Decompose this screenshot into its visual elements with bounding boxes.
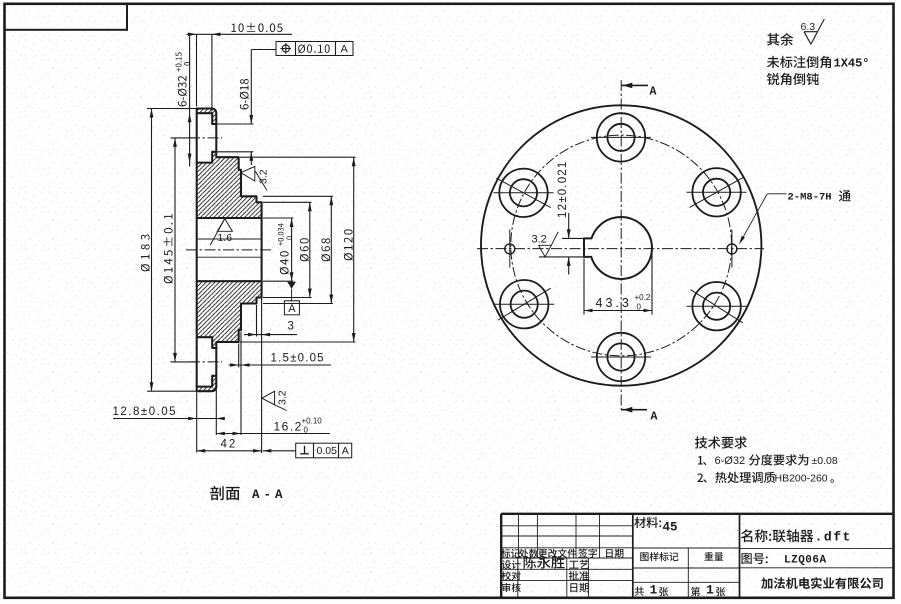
label 6-Ø32 +0.15/0: [178, 76, 187, 107]
name cell 名称:联轴器.dft: [741, 529, 813, 542]
material cell 材料: 45: [634, 517, 661, 528]
svg-text:A: A: [342, 445, 349, 457]
label and dim 6-Ø18: [217, 123, 254, 125]
M8 tapped hole right: [727, 244, 737, 254]
svg-text:3.2: 3.2: [258, 169, 270, 184]
svg-text:3.2: 3.2: [277, 390, 289, 405]
svg-text:A: A: [288, 303, 296, 315]
svg-text:1.6: 1.6: [218, 232, 233, 244]
svg-text:16.2: 16.2: [274, 420, 303, 434]
bolt hole 5: counterbore Ø32 + through Ø18: [500, 280, 548, 328]
right face edge across bore: [261, 218, 263, 281]
svg-text:1: 1: [650, 583, 658, 598]
drawing number cell 图号: LZQ06A: [742, 553, 768, 564]
svg-text:±0.08: ±0.08: [812, 455, 838, 467]
surface finish 1.6 in bore: [217, 219, 232, 232]
svg-text:A: A: [341, 44, 349, 56]
svg-text:45: 45: [663, 521, 678, 535]
dim 3 (D68 step width): [256, 305, 258, 337]
company name 加法机电实业有限公司: [761, 577, 883, 589]
GDT perpendicularity box ⊥ 0.05 A: [263, 450, 296, 452]
main centerline vertical / section line A-A: [620, 80, 622, 410]
section view hatched body: lower middle block (plate + hub lower half): [197, 281, 262, 348]
row 设计 陈永胜 工艺: [502, 560, 521, 569]
cells 共1张 第1张: [635, 587, 644, 596]
svg-text:1.5±0.05: 1.5±0.05: [271, 353, 325, 365]
cells 图样标记 | 重量: [687, 548, 689, 597]
svg-text:0: 0: [637, 303, 642, 312]
revision grid columns (top rows): [518, 514, 520, 558]
技术要求 heading: [695, 436, 747, 448]
dim 12.8±0.05: [113, 418, 225, 420]
svg-text:0.05: 0.05: [317, 445, 338, 457]
plate face edge across D18 holes: [215, 124, 217, 152]
svg-text:.dft: .dft: [815, 530, 852, 545]
keyway lines across bore (section): [197, 238, 262, 240]
bolt hole 3: counterbore Ø32 + through Ø18: [499, 169, 547, 217]
surface finish 3.2 at right face ext line: [262, 391, 275, 405]
outer circle Ø183: [481, 105, 761, 385]
title block section dividers: [632, 514, 634, 598]
datum A symbol: [287, 282, 296, 289]
dim Ø145±0.1: [174, 138, 176, 362]
section view hatched body: upper middle block (plate + hub upper half): [197, 152, 262, 218]
top-left corner block: [5, 4, 128, 30]
svg-text:2-M8-7H: 2-M8-7H: [788, 192, 832, 204]
dim 1.5±0.05 (relief step width): [238, 344, 240, 368]
svg-text:12±0.021: 12±0.021: [557, 161, 569, 218]
row 审核 日期: [502, 583, 521, 592]
dim Ø183: [151, 109, 153, 392]
note 锐角倒钝: [767, 73, 819, 85]
svg-text:+0.2: +0.2: [635, 293, 651, 302]
bore centerline (section): [186, 249, 271, 251]
svg-text:A-A: A-A: [252, 488, 287, 502]
svg-text:HB200-260: HB200-260: [775, 473, 828, 485]
dim 10±0.05 (counterbore depth): [187, 33, 293, 35]
bolt hole 1: counterbore Ø32 + through Ø18: [597, 113, 645, 161]
svg-text:LZQ06A: LZQ06A: [784, 555, 827, 567]
tech req line 1: [698, 456, 703, 465]
section view hatched body: lower cap (rim under counterbore): [197, 376, 217, 391]
left face edge across bore: [196, 218, 198, 281]
center bore Ø40 with keyway: [584, 217, 652, 279]
header row text 标记 处数 更改文件 签字 日期: [501, 549, 520, 558]
svg-text:6-Ø32: 6-Ø32: [715, 455, 746, 467]
dim Ø68: [263, 195, 333, 197]
bolt hole 2: counterbore Ø32 + through Ø18: [597, 333, 645, 381]
revision grid rows (left): [501, 525, 633, 527]
signature columns (bottom rows): [517, 558, 519, 597]
svg-text:43.3: 43.3: [596, 296, 632, 310]
GDT position tolerance box ⌖ Ø0.10 A: [251, 49, 276, 51]
section label 剖面 A-A: [210, 486, 240, 501]
title block outer lines: [501, 513, 893, 515]
svg-text:3.2: 3.2: [532, 234, 547, 246]
svg-text:12.8±0.05: 12.8±0.05: [113, 406, 178, 418]
svg-text:+0.10: +0.10: [302, 417, 323, 426]
tech req line 2: [697, 473, 703, 482]
dim Ø120: [240, 156, 356, 158]
dim 16.2 +0.10/0: [216, 433, 330, 435]
bolt circle Ø145 (dash-dot): [511, 135, 732, 356]
svg-text:1X45°: 1X45°: [834, 57, 870, 71]
M8 tapped hole left: [505, 244, 515, 254]
section view hatched body: upper cap (rim over counterbore): [197, 109, 217, 125]
dim 43.3 +0.2/0 (keyway depth): [583, 258, 585, 314]
bolt hole 4: counterbore Ø32 + through Ø18: [692, 168, 740, 216]
row 校对 批准: [502, 571, 521, 580]
dim 12±0.021 (keyway width): [562, 237, 584, 239]
note 未标注倒角1X45°: [767, 56, 831, 68]
surface finish 3.2 at D120 face: [241, 166, 255, 181]
dim Ø60: [263, 201, 312, 203]
left face edge across counterbores: [196, 113, 198, 162]
section arrows A-A: [621, 84, 648, 86]
dim 42: [197, 450, 262, 452]
svg-text:A: A: [651, 411, 658, 424]
svg-text:1: 1: [706, 583, 714, 598]
svg-text:0: 0: [304, 426, 309, 435]
svg-text:A: A: [650, 86, 657, 99]
label 2-M8-7H通 with leader: [767, 193, 786, 195]
svg-text:42: 42: [221, 439, 238, 451]
svg-text:3: 3: [288, 321, 294, 333]
bolt hole centerlines (section): [189, 137, 222, 139]
bolt hole 6: counterbore Ø32 + through Ø18: [692, 282, 740, 330]
note 其余 with 6.3 symbol: [767, 33, 793, 46]
main centerline horizontal: [477, 248, 764, 250]
dim Ø40 +0.034/0 with datum A: [263, 217, 294, 219]
